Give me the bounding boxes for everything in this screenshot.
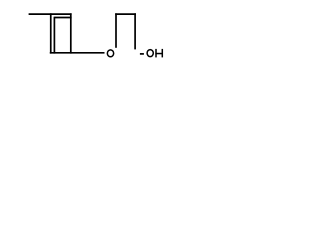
node O: ether oxygen label (drawn as vector glyph) xyxy=(107,50,113,57)
wire: ring left edge outer line xyxy=(50,13,52,53)
wire: ring right edge xyxy=(70,13,72,53)
wire: bond O up to CH2 xyxy=(115,13,117,48)
wire: short bond dash to OH xyxy=(140,53,144,55)
wire: ring bottom edge extending to ether O xyxy=(50,52,105,54)
wire: ring left double-bond inner line xyxy=(53,17,55,54)
wire: methyl + ring top edge outer line xyxy=(29,13,72,15)
wire: bond CH2-CH2 top horizontal xyxy=(115,13,136,15)
node OH: hydroxyl label O glyph xyxy=(147,50,153,57)
node OH: hydroxyl label H glyph xyxy=(155,49,163,58)
wire: ring top double-bond inner line xyxy=(54,17,71,19)
wire: bond CH2 down xyxy=(134,13,136,49)
background xyxy=(0,0,196,77)
